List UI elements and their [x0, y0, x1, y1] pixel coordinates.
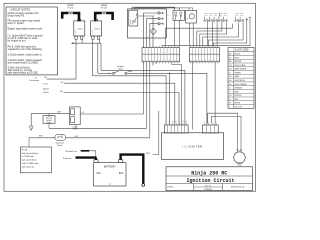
svg-text:side stand up.: side stand up.: [22, 165, 35, 168]
svg-text:B: B: [143, 53, 145, 54]
svg-text:GRAY: GRAY: [234, 75, 240, 78]
svg-text:to egn head P5.: to egn head P5.: [8, 14, 26, 17]
svg-text:B: B: [162, 60, 164, 61]
svg-text:BK/W: BK/W: [128, 71, 133, 73]
svg-text:B: B: [143, 60, 145, 61]
svg-text:BATTERY: BATTERY: [104, 165, 116, 169]
svg-text:From: From: [44, 83, 49, 86]
svg-text:B: B: [146, 60, 148, 61]
svg-text:B: B: [159, 60, 161, 61]
svg-text:B: B: [190, 60, 192, 61]
svg-text:Tachometer: Tachometer: [29, 79, 39, 82]
svg-text:B: B: [218, 53, 220, 54]
svg-text:Fan: Fan: [187, 17, 189, 20]
svg-text:B: B: [175, 53, 177, 54]
svg-text:supplied by one of the followi: supplied by one of the following:: [8, 48, 43, 51]
svg-text:and neutral switch CLOSED.: and neutral switch CLOSED.: [8, 61, 39, 64]
svg-text:B: B: [153, 60, 155, 61]
svg-text:B: B: [203, 53, 205, 54]
svg-text:LIGHT BLUE: LIGHT BLUE: [234, 80, 245, 82]
svg-text:B: B: [165, 53, 167, 54]
svg-text:B: B: [190, 53, 192, 54]
svg-text:I C IGNITER: I C IGNITER: [182, 144, 203, 148]
svg-text:N: N: [154, 15, 156, 16]
svg-text:B: B: [193, 53, 195, 54]
svg-text:B: B: [212, 60, 214, 61]
svg-text:Switch: Switch: [57, 144, 62, 147]
svg-text:side stand switch to CLOSE.: side stand switch to CLOSE.: [8, 72, 39, 75]
svg-text:B: B: [175, 60, 177, 61]
svg-text:PLUG: PLUG: [101, 8, 107, 10]
svg-text:ORANGE: ORANGE: [234, 87, 243, 90]
svg-text:Rev 1.0: Rev 1.0: [205, 185, 211, 187]
svg-text:12V: 12V: [96, 172, 101, 175]
svg-text:Ignition Circuit: Ignition Circuit: [186, 178, 234, 184]
svg-text:WHITE: WHITE: [234, 103, 241, 105]
svg-text:BLACK: BLACK: [234, 53, 241, 56]
svg-text:side stand down,: side stand down,: [22, 159, 38, 162]
svg-text:B: B: [153, 53, 155, 54]
svg-text:B: B: [200, 60, 202, 61]
svg-text:BK: BK: [176, 120, 178, 122]
svg-text:BK: BK: [179, 120, 181, 122]
svg-text:B: B: [156, 60, 158, 61]
svg-text:B: B: [212, 53, 214, 54]
svg-text:B: B: [200, 53, 202, 54]
svg-text:BK: BK: [186, 120, 188, 122]
svg-text:To Starter: To Starter: [63, 157, 72, 160]
svg-text:B: B: [168, 53, 170, 54]
svg-text:B: B: [215, 60, 217, 61]
svg-text:NOTE:: NOTE:: [22, 149, 29, 151]
svg-text:B: B: [197, 53, 199, 54]
svg-text:BK: BK: [183, 120, 185, 122]
svg-text:B: B: [209, 53, 211, 54]
svg-text:B: B: [159, 53, 161, 54]
svg-text:EX250-F4 & Up: EX250-F4 & Up: [231, 187, 244, 189]
svg-text:B: B: [168, 60, 170, 61]
svg-text:BK: BK: [172, 120, 174, 122]
svg-text:YELLOW: YELLOW: [234, 106, 242, 108]
svg-text:COLOR CODE: COLOR CODE: [233, 50, 249, 52]
svg-text:Switch: Switch: [43, 91, 49, 94]
svg-text:8Ah: 8Ah: [119, 172, 124, 175]
svg-text:B: B: [193, 60, 195, 61]
svg-text:COIL 2: COIL 2: [94, 28, 100, 30]
svg-text:Side Stand Switch: Side Stand Switch: [22, 152, 39, 155]
svg-text:PURPLE: PURPLE: [234, 95, 242, 97]
svg-text:B: B: [206, 60, 208, 61]
svg-text:N: N: [154, 20, 156, 21]
svg-text:DARK GREEN: DARK GREEN: [234, 68, 247, 71]
svg-text:Engine stop switch powers coil: Engine stop switch powers coils.: [8, 28, 43, 31]
svg-text:BK: BK: [166, 120, 168, 122]
svg-text:B: B: [178, 53, 180, 54]
svg-text:PLUG: PLUG: [68, 8, 74, 10]
svg-text:LIGHT GREEN: LIGHT GREEN: [234, 84, 247, 86]
svg-text:B: B: [156, 53, 158, 54]
svg-text:B: B: [197, 60, 199, 61]
svg-text:Ignition: Ignition: [43, 87, 49, 90]
svg-text:12/28/2007: 12/28/2007: [204, 189, 213, 191]
svg-text:B: B: [165, 60, 167, 61]
svg-text:B: B: [206, 53, 208, 54]
svg-text:B: B: [215, 53, 217, 54]
svg-text:BK: BK: [169, 120, 171, 122]
svg-text:1-Clutch switch, clutch pulled: 1-Clutch switch, clutch pulled in.: [8, 54, 43, 57]
svg-text:P.Milia: P.Milia: [168, 187, 175, 189]
svg-text:is OPEN with: is OPEN with: [22, 155, 34, 158]
svg-text:B: B: [162, 53, 164, 54]
svg-text:B: B: [146, 53, 148, 54]
svg-text:and I.C. Igniter.: and I.C. Igniter.: [8, 22, 25, 25]
svg-text:B: B: [209, 60, 211, 61]
svg-text:Ninja 250 RC: Ninja 250 RC: [191, 170, 227, 176]
svg-text:COIL 1: COIL 1: [77, 28, 83, 30]
svg-text:To Main Fuse: To Main Fuse: [65, 151, 78, 153]
svg-text:B: B: [171, 60, 173, 61]
svg-text:N: N: [154, 25, 156, 26]
svg-text:B: B: [150, 60, 152, 61]
svg-text:B: B: [203, 60, 205, 61]
svg-text:B: B: [150, 53, 152, 54]
svg-text:and CLOSED with: and CLOSED with: [22, 162, 39, 165]
svg-text:G/W: G/W: [75, 136, 79, 138]
svg-text:B: B: [218, 60, 220, 61]
svg-text:W: W: [229, 103, 231, 105]
svg-text:B: B: [171, 53, 173, 54]
svg-text:CHOCOLATE: CHOCOLATE: [234, 64, 246, 67]
svg-text:for engine to run.: for engine to run.: [8, 40, 27, 43]
svg-text:B: B: [178, 60, 180, 61]
